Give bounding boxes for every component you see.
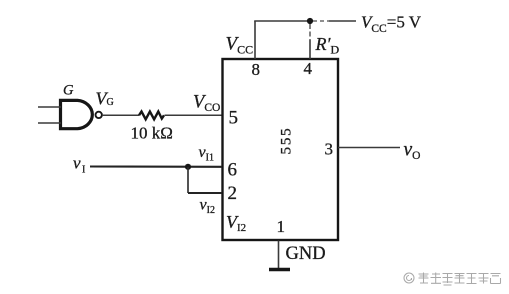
svg-text:GND: GND [286,244,326,264]
svg-text:3: 3 [325,140,334,159]
svg-text:VG: VG [96,89,114,109]
svg-text:5: 5 [229,108,239,129]
svg-text:vO: vO [404,140,421,163]
wire gate output to resistor [102,114,139,116]
svg-text:VCO: VCO [193,93,220,115]
wire to VCC supply solid part [329,20,356,22]
gate G output bubble [96,112,102,118]
svg-text:VCC: VCC [226,34,254,57]
gate G input wire 1 [38,106,61,108]
wire top horizontal to node [254,20,310,22]
svg-text:VCC=5 V: VCC=5 V [361,12,422,35]
IC U1 555 body [223,59,339,240]
svg-text:1: 1 [277,217,286,236]
svg-text:G: G [63,83,74,99]
ground symbol [269,268,290,272]
wire vI to junction [90,165,222,167]
svg-text:555: 555 [279,127,295,155]
wire pin 1 to ground [278,241,280,269]
svg-text:4: 4 [304,59,313,78]
svg-text:R′D: R′D [315,34,340,57]
wire to pin 2 [188,192,222,194]
svg-text:8: 8 [252,60,261,79]
svg-text:2: 2 [228,183,238,204]
wire node to VCC supply (partly faded) [313,20,329,22]
node junction dot VCC [307,18,313,24]
svg-text:10 kΩ: 10 kΩ [131,124,173,143]
wire resistor to pin 5 [165,114,223,116]
svg-text:vI1: vI1 [199,144,214,164]
node junction dot vI [185,164,191,170]
wire pin 3 output [338,147,400,149]
svg-text:vI2: vI2 [200,197,215,217]
resistor 10k zigzag [139,112,164,120]
wire pin 8 vertical [254,21,256,59]
svg-text:vI: vI [73,154,85,176]
watermark [404,273,414,283]
gate G input wire 2 [38,122,61,124]
svg-text:6: 6 [228,160,238,181]
wire pin 4 vertical [309,24,311,40]
wire junction down [187,167,189,193]
gate G body [61,100,93,128]
